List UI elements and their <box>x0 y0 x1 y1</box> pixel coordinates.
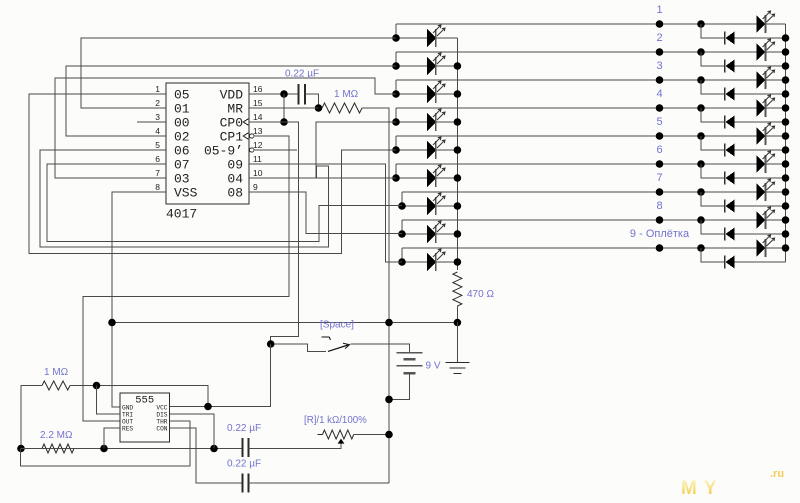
diode VD2 <box>724 60 726 73</box>
node right bus y136 <box>782 132 790 140</box>
wire row 5 diode to bus <box>735 149 786 151</box>
wire row 2 right LED to bus <box>766 51 786 53</box>
svg-text:00: 00 <box>174 116 190 131</box>
wire U1 pin10 O4 feed to row4 <box>249 122 396 178</box>
node row 8 feed <box>398 230 406 238</box>
svg-text:15: 15 <box>253 98 263 108</box>
svg-text:8: 8 <box>656 200 662 212</box>
wire switch left <box>271 344 326 351</box>
svg-text:08: 08 <box>227 186 243 201</box>
node space-R1 <box>385 319 393 327</box>
U1 O5-9 bubble <box>250 148 254 152</box>
wire row 3 branch up <box>395 80 397 94</box>
LED HL9 (right column) <box>757 239 766 257</box>
junction row 6 <box>697 160 705 168</box>
wire DIS <box>170 414 215 449</box>
node right bus y206 <box>782 202 790 210</box>
wire R2 bottom lead <box>456 306 458 323</box>
junction row 9 <box>697 244 705 252</box>
svg-text:3: 3 <box>656 60 662 72</box>
node battery minus <box>385 396 393 404</box>
svg-text:0.22 µF: 0.22 µF <box>285 69 319 80</box>
svg-text:[R]/1 kΩ/100%: [R]/1 kΩ/100% <box>304 415 367 426</box>
wire row 8 diode to bus <box>735 233 786 235</box>
node right bus y220 <box>782 216 790 224</box>
wire ground stem <box>456 323 458 363</box>
wire row 5 branch up <box>395 136 397 150</box>
node pin 7 connector dot <box>656 188 664 196</box>
LED HL7 (right column) <box>757 183 766 201</box>
svg-text:6: 6 <box>155 154 160 164</box>
wire R3 right to VCC <box>70 386 208 407</box>
wire U1 pin11 O9 feed to row9 <box>249 164 402 262</box>
wire row 4 right LED to bus <box>766 107 786 109</box>
wire row 9 diode to bus <box>735 261 786 263</box>
wire U1 pin2 O1 feed to row1 <box>81 38 396 108</box>
node pin 4 connector dot <box>656 104 664 112</box>
resistor R4 2.2 Mohm <box>42 444 74 453</box>
wire U1 pin3 O0 stub <box>137 121 166 123</box>
node DIS-R4 <box>210 445 218 453</box>
node left bus row 2 <box>454 62 462 70</box>
IC U1 4017 box <box>166 83 249 204</box>
node pot-trunk <box>385 431 393 439</box>
wire row 7 right LED to bus <box>766 191 786 193</box>
wire row 8 long line <box>402 219 757 221</box>
junction row 2 <box>697 48 705 56</box>
svg-text:01: 01 <box>174 102 190 117</box>
wire row 2 anode <box>396 65 427 67</box>
svg-text:VCC: VCC <box>156 404 167 411</box>
svg-text:0.22 µF: 0.22 µF <box>227 459 261 470</box>
node left bus row 3 <box>454 90 462 98</box>
wire row 1 anode <box>396 37 427 39</box>
svg-text:9 - Оплётка: 9 - Оплётка <box>630 228 690 240</box>
svg-text:14: 14 <box>253 112 263 122</box>
wire row 7 diode branch <box>701 192 724 206</box>
wire row 1 right LED to bus <box>766 23 786 25</box>
wire R3 left to R4 left <box>21 386 42 449</box>
node row 6 feed <box>392 174 400 182</box>
node right bus y234 <box>782 230 790 238</box>
svg-text:02: 02 <box>174 130 190 145</box>
LED D2 (left column) <box>427 57 436 75</box>
wire row 2 branch up <box>395 52 397 66</box>
svg-text:07: 07 <box>174 158 190 173</box>
wire row 6 diode to bus <box>735 177 786 179</box>
node space-GND <box>454 319 462 327</box>
svg-text:4: 4 <box>155 126 160 136</box>
wire row 3 anode <box>396 93 427 95</box>
node CP0 tie <box>280 118 288 126</box>
LED HL5 (right column) <box>757 127 766 145</box>
junction row 5 <box>697 132 705 140</box>
svg-text:8: 8 <box>155 182 160 192</box>
wire VDD to CP0 tie <box>283 94 285 122</box>
resistor R1 1 Mohm <box>322 103 362 113</box>
node left bus row 5 <box>454 146 462 154</box>
wire TRI <box>97 386 121 415</box>
svg-text:.ru: .ru <box>770 468 784 480</box>
pot R5 1k body <box>323 430 354 439</box>
svg-text:05-9’: 05-9’ <box>204 144 243 159</box>
svg-text:2.2 MΩ: 2.2 MΩ <box>40 430 73 441</box>
wire row 9 cathode to bus <box>437 261 458 263</box>
wire row 8 cathode to bus <box>437 233 458 235</box>
node right bus y108 <box>782 104 790 112</box>
wire row 8 diode branch <box>701 220 724 234</box>
wire row 5 cathode to bus <box>437 149 458 151</box>
node switch-VCC-CP0 <box>267 340 275 348</box>
wire R4 row <box>21 448 242 450</box>
switch S1 lever <box>328 345 348 351</box>
wire R1 to switch trunk <box>362 108 389 483</box>
wire row 5 diode branch <box>701 136 724 150</box>
svg-text:RES: RES <box>122 425 133 432</box>
node right bus y66 <box>782 62 790 70</box>
wire row 7 anode <box>402 205 427 207</box>
wire row 3 diode to bus <box>735 93 786 95</box>
wire U1 pin12 stub <box>254 149 297 151</box>
svg-text:5: 5 <box>155 140 160 150</box>
junction row 7 <box>697 188 705 196</box>
svg-text:6: 6 <box>656 144 662 156</box>
ground symbol <box>446 362 470 364</box>
LED HL4 (right column) <box>757 99 766 117</box>
wire space line <box>112 322 457 324</box>
wire row 3 right LED to bus <box>766 79 786 81</box>
node space-VSS <box>108 319 116 327</box>
node right bus y164 <box>782 160 790 168</box>
node right bus y150 <box>782 146 790 154</box>
wire U1 pin8 VSS trunk <box>112 192 166 407</box>
LED D8 (left column) <box>427 225 436 243</box>
svg-text:THR: THR <box>156 418 167 425</box>
wire row 1 branch up <box>395 24 397 38</box>
wire U1 pin13 CP1 to 555 OUT <box>83 136 289 421</box>
svg-text:555: 555 <box>135 395 154 407</box>
wire battery minus <box>389 373 410 399</box>
svg-text:1: 1 <box>155 84 160 94</box>
LED HL3 (right column) <box>757 71 766 89</box>
wire row 9 branch up <box>401 248 403 262</box>
wire row 3 long line <box>396 79 757 81</box>
wire pot right <box>354 434 389 436</box>
diode VD7 <box>724 200 726 213</box>
svg-text:05: 05 <box>174 88 190 103</box>
wire row 4 cathode to bus <box>437 121 458 123</box>
svg-text:MY: MY <box>681 478 724 499</box>
svg-text:2: 2 <box>656 32 662 44</box>
svg-text:1: 1 <box>656 4 662 16</box>
node left bus row 7 <box>454 202 462 210</box>
node left bus row 8 <box>454 230 462 238</box>
svg-text:CP1: CP1 <box>220 130 244 145</box>
wire row 5 right LED to bus <box>766 135 786 137</box>
LED HL8 (right column) <box>757 211 766 229</box>
wire row 2 long line <box>396 51 757 53</box>
node pin 1 connector dot <box>656 20 664 28</box>
svg-text:GND: GND <box>122 404 133 411</box>
svg-text:470 Ω: 470 Ω <box>467 289 494 300</box>
wire row 4 branch up <box>395 108 397 122</box>
wire U1 pin6 O7 feed to row7 <box>47 164 402 242</box>
wire row 7 cathode to bus <box>437 205 458 207</box>
diode VD3 <box>724 88 726 101</box>
wire row 9 long line <box>402 247 757 249</box>
node right bus y52 <box>782 48 790 56</box>
node MR tie <box>315 104 323 112</box>
diode VD4 <box>724 116 726 129</box>
svg-text:9: 9 <box>253 182 258 192</box>
svg-text:4017: 4017 <box>166 207 197 222</box>
U1 CP1 clock chevron <box>243 133 249 140</box>
wire U1 pin5 O6 feed to row6 <box>40 150 396 247</box>
wire row 4 diode branch <box>701 108 724 122</box>
svg-text:11: 11 <box>253 154 262 164</box>
wire row 3 diode branch <box>701 80 724 94</box>
wire U1 pin1 O5 feed to row5 <box>29 94 396 254</box>
wire RES <box>104 428 120 449</box>
wire right bus <box>785 24 787 262</box>
capacitor C1 0.22uF plates <box>298 84 300 105</box>
LED D1 (left column) <box>427 29 436 47</box>
LED D3 (left column) <box>427 85 436 103</box>
node row 3 feed <box>392 90 400 98</box>
diode VD8 <box>724 228 726 241</box>
wire row 2 diode branch <box>701 52 724 66</box>
switch S1 ref stub <box>321 337 330 340</box>
svg-text:[Space]: [Space] <box>320 320 354 331</box>
svg-text:VSS: VSS <box>174 186 198 201</box>
node right bus y248 <box>782 244 790 252</box>
node row 5 feed <box>392 146 400 154</box>
wire row 6 diode branch <box>701 164 724 178</box>
svg-text:1 MΩ: 1 MΩ <box>44 367 69 378</box>
wire row 1 long line <box>396 23 757 25</box>
svg-text:VDD: VDD <box>220 88 244 103</box>
wire row 1 cathode to bus <box>437 37 458 39</box>
wire U1 pin4 O2 feed to row2 <box>66 66 396 136</box>
wire row 9 anode <box>402 261 427 263</box>
LED HL2 (right column) <box>757 43 766 61</box>
svg-text:13: 13 <box>253 126 263 136</box>
svg-text:DIS: DIS <box>156 411 167 418</box>
node pin 6 connector dot <box>656 160 664 168</box>
junction row 3 <box>697 76 705 84</box>
node right bus y94 <box>782 90 790 98</box>
node row 2 feed <box>392 62 400 70</box>
diode VD1 <box>724 32 726 45</box>
U1 CP0 clock chevron <box>243 119 249 126</box>
svg-text:TRI: TRI <box>122 411 133 418</box>
wire C2 to pot wiper <box>249 444 342 449</box>
node row 4 feed <box>392 118 400 126</box>
wire row 4 diode to bus <box>735 121 786 123</box>
pot R5 wiper arrow <box>338 439 345 444</box>
node VDD <box>280 90 288 98</box>
node row 1 feed <box>392 34 400 42</box>
node left bus row 6 <box>454 174 462 182</box>
node pin 3 connector dot <box>656 76 664 84</box>
wire U1 pin16 VDD <box>249 93 299 95</box>
LED D5 (left column) <box>427 141 436 159</box>
capacitor C3 0.22uF plates <box>242 474 244 493</box>
node R3-TRI <box>93 382 101 390</box>
node pin 5 connector dot <box>656 132 664 140</box>
svg-text:MR: MR <box>227 102 243 117</box>
junction row 1 <box>697 20 705 28</box>
wire U1 pin15 MR <box>249 107 319 109</box>
wire row 8 branch up <box>401 220 403 234</box>
svg-text:4: 4 <box>656 88 662 100</box>
wire row 6 long line <box>396 163 757 165</box>
svg-text:CP0: CP0 <box>220 116 243 131</box>
wire row 4 long line <box>396 107 757 109</box>
wire CON to C3 <box>170 428 243 483</box>
svg-text:7: 7 <box>155 168 160 178</box>
svg-text:12: 12 <box>253 140 263 150</box>
wire C1 right to MR tie <box>305 94 319 108</box>
wire row 8 anode <box>402 233 427 235</box>
node left bus row 9 <box>454 258 462 266</box>
wire row 8 right LED to bus <box>766 219 786 221</box>
wire row 5 long line <box>396 135 757 137</box>
wire row 1 diode to bus <box>735 37 786 39</box>
node pin 9 connector dot <box>656 244 664 252</box>
wire row 6 branch up <box>395 164 397 178</box>
LED D6 (left column) <box>427 169 436 187</box>
wire VCC <box>170 344 271 407</box>
junction row 8 <box>697 216 705 224</box>
svg-text:5: 5 <box>656 116 662 128</box>
wire row 6 cathode to bus <box>437 177 458 179</box>
svg-text:2: 2 <box>155 98 160 108</box>
node left bus row 4 <box>454 118 462 126</box>
wire row 2 cathode to bus <box>437 65 458 67</box>
LED D7 (left column) <box>427 197 436 215</box>
wire row 6 anode <box>396 177 427 179</box>
node right bus y122 <box>782 118 790 126</box>
diode VD9 <box>724 256 726 269</box>
IC U2 555 box <box>120 393 170 442</box>
node row 7 feed <box>398 202 406 210</box>
LED D4 (left column) <box>427 113 436 131</box>
wire row 7 branch up <box>401 192 403 206</box>
wire row 9 right LED to bus <box>766 247 786 249</box>
svg-text:OUT: OUT <box>122 418 133 425</box>
resistor R3 1 Mohm <box>42 381 70 390</box>
resistor R2 470 ohm <box>453 272 462 306</box>
node right bus y80 <box>782 76 790 84</box>
node pin 8 connector dot <box>656 216 664 224</box>
node right bus y38 <box>782 34 790 42</box>
node row 9 feed <box>398 258 406 266</box>
node VCC-R3 <box>204 403 212 411</box>
battery V1 9V <box>397 352 423 354</box>
svg-text:06: 06 <box>174 144 190 159</box>
svg-text:10: 10 <box>253 168 263 178</box>
svg-text:1 MΩ: 1 MΩ <box>334 89 359 100</box>
wire THR <box>21 421 190 466</box>
capacitor C2 0.22uF plates <box>242 438 244 457</box>
svg-text:CON: CON <box>156 425 167 432</box>
wire row 6 right LED to bus <box>766 163 786 165</box>
node right bus y178 <box>782 174 790 182</box>
LED D9 (left column) <box>427 253 436 271</box>
junction row 4 <box>697 104 705 112</box>
svg-text:9 V: 9 V <box>426 361 441 372</box>
diode VD5 <box>724 144 726 157</box>
wire switch right to battery <box>351 344 410 353</box>
node RES-R4 <box>100 445 108 453</box>
svg-text:04: 04 <box>227 172 243 187</box>
wire left cathode bus <box>456 38 458 270</box>
wire row 7 long line <box>402 191 757 193</box>
wire U1 pin9 O8 feed to row8 <box>249 192 402 234</box>
node right bus y192 <box>782 188 790 196</box>
svg-text:7: 7 <box>656 172 662 184</box>
svg-text:16: 16 <box>253 84 263 94</box>
wire row 3 cathode to bus <box>437 93 458 95</box>
LED HL1 (right column) <box>757 15 766 33</box>
wire U1 pin14 CP0 line <box>249 122 298 344</box>
wire C3 to trunk <box>249 482 390 484</box>
svg-text:03: 03 <box>174 172 190 187</box>
LED HL6 (right column) <box>757 155 766 173</box>
wire row 5 anode <box>396 149 427 151</box>
wire row 2 diode to bus <box>735 65 786 67</box>
wire row 4 anode <box>396 121 427 123</box>
wire row 7 diode to bus <box>735 205 786 207</box>
svg-text:09: 09 <box>227 158 243 173</box>
wire U1 pin7 O3 feed to row3 <box>55 78 396 178</box>
node R3-R4-THR <box>17 445 25 453</box>
wire row 9 diode branch <box>701 248 724 262</box>
wire row 1 diode branch <box>701 24 724 38</box>
diode VD6 <box>724 172 726 185</box>
svg-text:3: 3 <box>155 112 160 122</box>
node pin 2 connector dot <box>656 48 664 56</box>
svg-text:0.22 µF: 0.22 µF <box>227 423 261 434</box>
